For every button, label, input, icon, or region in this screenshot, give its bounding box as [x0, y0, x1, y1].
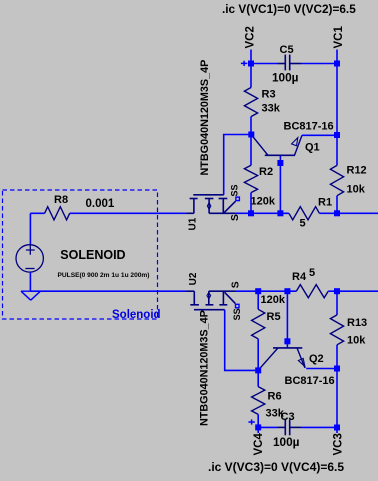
svg-text:R6: R6: [268, 391, 282, 403]
svg-text:VC1: VC1: [333, 26, 345, 49]
node ground rail / Q2 base: [284, 288, 290, 294]
resistor R12: [330, 165, 343, 195]
svg-text:BC817-16: BC817-16: [285, 375, 335, 387]
capacitor C3: [277, 420, 301, 436]
wire ground rail to U2 drain: [30, 290, 186, 292]
svg-text:.ic V(VC1)=0 V(VC2)=6.5: .ic V(VC1)=0 V(VC2)=6.5: [222, 2, 356, 16]
svg-text:SS: SS: [232, 308, 242, 320]
svg-text:C3: C3: [281, 411, 295, 423]
transistor Q2 (BC817-16 NPN): [259, 348, 305, 370]
node VC4 / C3 / R6: [255, 424, 261, 430]
mosfet U1 NTBG040N120M3S_4P: [186, 195, 236, 214]
svg-text:R2: R2: [259, 166, 273, 178]
wire Q1 emitter to R12 column: [302, 134, 337, 136]
node VC1/C5/R12 top: [334, 61, 340, 67]
wire V1 bottom lead: [29, 272, 31, 291]
svg-text:Solenoid: Solenoid: [112, 309, 161, 321]
svg-text:BC817-16: BC817-16: [284, 121, 334, 133]
dashed boundary box Solenoid: [3, 190, 158, 319]
wire drain rail from solenoid box to U1: [30, 212, 185, 214]
svg-text:VC2: VC2: [245, 26, 257, 48]
svg-text:Q2: Q2: [309, 353, 324, 365]
wire bottom rail right (C3 to VC3 node): [301, 426, 337, 428]
capacitor C5: [277, 55, 301, 71]
wire R5 top lead: [257, 291, 259, 309]
svg-text:5: 5: [309, 267, 315, 279]
svg-text:R1: R1: [318, 197, 332, 209]
wire Q2 emitter to R13 column: [306, 368, 337, 370]
svg-text:R13: R13: [347, 317, 367, 329]
svg-text:120k: 120k: [261, 294, 286, 306]
wire R13 top lead: [336, 291, 338, 315]
node gate1/R3/R2/Q1 collector: [248, 132, 254, 138]
node Q1 base wire: [277, 160, 283, 166]
wire U2 gate down and right to node: [225, 310, 259, 371]
svg-text:R4: R4: [292, 271, 307, 283]
wire R2 bottom lead: [250, 193, 252, 214]
svg-text:5: 5: [300, 218, 306, 230]
polarity marker + (C5 / VC2 node): [241, 61, 247, 66]
wire Q1 base to rail: [279, 155, 281, 213]
svg-text:100µ: 100µ: [272, 70, 299, 84]
resistor R13: [330, 315, 343, 345]
resistor R6: [257, 370, 259, 386]
wire VC1 stub: [336, 50, 338, 64]
svg-text:SOLENOID: SOLENOID: [60, 248, 125, 262]
wire V1 top lead: [29, 213, 31, 245]
svg-text:U2: U2: [188, 272, 199, 285]
svg-text:10k: 10k: [347, 184, 366, 196]
wire VC4 stub: [257, 427, 259, 433]
resistor R8: [45, 207, 70, 220]
svg-text:R5: R5: [267, 311, 281, 323]
node Q1 emitter/R12 column: [334, 132, 340, 138]
resistor R5: [252, 309, 265, 339]
transistor Q1 (BC817-16 NPN): [252, 135, 302, 155]
svg-text:33k: 33k: [262, 103, 281, 115]
resistor R1: [289, 207, 320, 220]
node gate2/R5/R6/Q2 collector: [255, 367, 261, 373]
svg-text:PULSE(0 900 2m 1u 1u 200m): PULSE(0 900 2m 1u 1u 200m): [58, 272, 150, 279]
wire R4 to right edge: [328, 290, 378, 292]
svg-text:.ic V(VC3)=0 V(VC4)=6.5: .ic V(VC3)=0 V(VC4)=6.5: [208, 460, 344, 474]
wire R2 top lead: [250, 135, 252, 166]
pin marker SS (U2): [236, 304, 240, 308]
wire Q2 base from rail: [286, 291, 288, 348]
svg-text:SS: SS: [229, 184, 239, 196]
mosfet U2 NTBG040N120M3S_4P: [186, 291, 236, 310]
svg-text:R12: R12: [347, 165, 367, 177]
wire R12 bottom lead: [336, 196, 338, 214]
wire R6 bottom lead: [257, 414, 259, 427]
wire R13 bottom lead: [336, 345, 338, 369]
wire R3 bottom lead: [250, 117, 252, 135]
svg-text:C5: C5: [280, 44, 294, 56]
svg-text:NTBG040N120M3S_4P: NTBG040N120M3S_4P: [199, 310, 211, 426]
wire VC3 stub: [336, 428, 338, 434]
node source rail / R2: [248, 210, 254, 216]
resistor R2: [244, 165, 257, 192]
wire top rail right (C5 to VC1 node): [301, 63, 337, 65]
wire R5 bottom lead: [257, 339, 259, 371]
node ground rail / R13 / R4: [334, 288, 340, 294]
node Q2 base wire: [284, 338, 290, 344]
svg-text:100µ: 100µ: [273, 435, 300, 449]
node VC2/C5/R3: [248, 61, 254, 67]
svg-text:0.001: 0.001: [86, 198, 115, 210]
wire emitter node down to VC3 node: [336, 369, 338, 428]
node VC3 / C3 / R13 column: [334, 425, 340, 431]
svg-text:U1: U1: [188, 217, 199, 230]
svg-text:R8: R8: [54, 194, 68, 206]
node ground rail / R5: [255, 288, 261, 294]
polarity marker + (C3 / VC4 node): [248, 419, 254, 424]
node Q2 emitter / R13: [334, 366, 340, 372]
svg-text:R3: R3: [262, 89, 276, 101]
svg-text:VC3: VC3: [332, 433, 344, 455]
resistor R4: [296, 285, 328, 298]
wire VC2 stub: [250, 50, 252, 64]
voltage source V1 SOLENOID: [16, 245, 43, 272]
resistor R3: [244, 88, 257, 117]
node source rail / Q1 base: [277, 210, 283, 216]
wire R3 top lead: [250, 64, 252, 88]
wire R1 to right edge: [319, 212, 378, 214]
svg-text:10k: 10k: [347, 335, 366, 347]
wire VC1 node down to R12: [336, 64, 338, 166]
svg-text:120k: 120k: [251, 196, 276, 208]
svg-text:NTBG040N120M3S_4P: NTBG040N120M3S_4P: [199, 60, 211, 176]
svg-text:Q1: Q1: [305, 141, 320, 153]
svg-text:S: S: [230, 281, 241, 288]
wire bottom rail left (VC4 node to C3): [258, 426, 277, 428]
svg-text:S: S: [230, 214, 241, 221]
wire top rail left (VC2 node to C5): [251, 63, 277, 65]
wire U1 gate to node (vertical + horizontal): [224, 135, 251, 195]
node source rail / R12 / R1: [334, 210, 340, 216]
ground: [21, 291, 40, 300]
wire U2 source rail to R4: [236, 290, 296, 292]
wire source rail U1 to R1: [236, 212, 289, 214]
pin marker SS (U1): [236, 197, 240, 201]
svg-text:VC4: VC4: [253, 433, 265, 456]
